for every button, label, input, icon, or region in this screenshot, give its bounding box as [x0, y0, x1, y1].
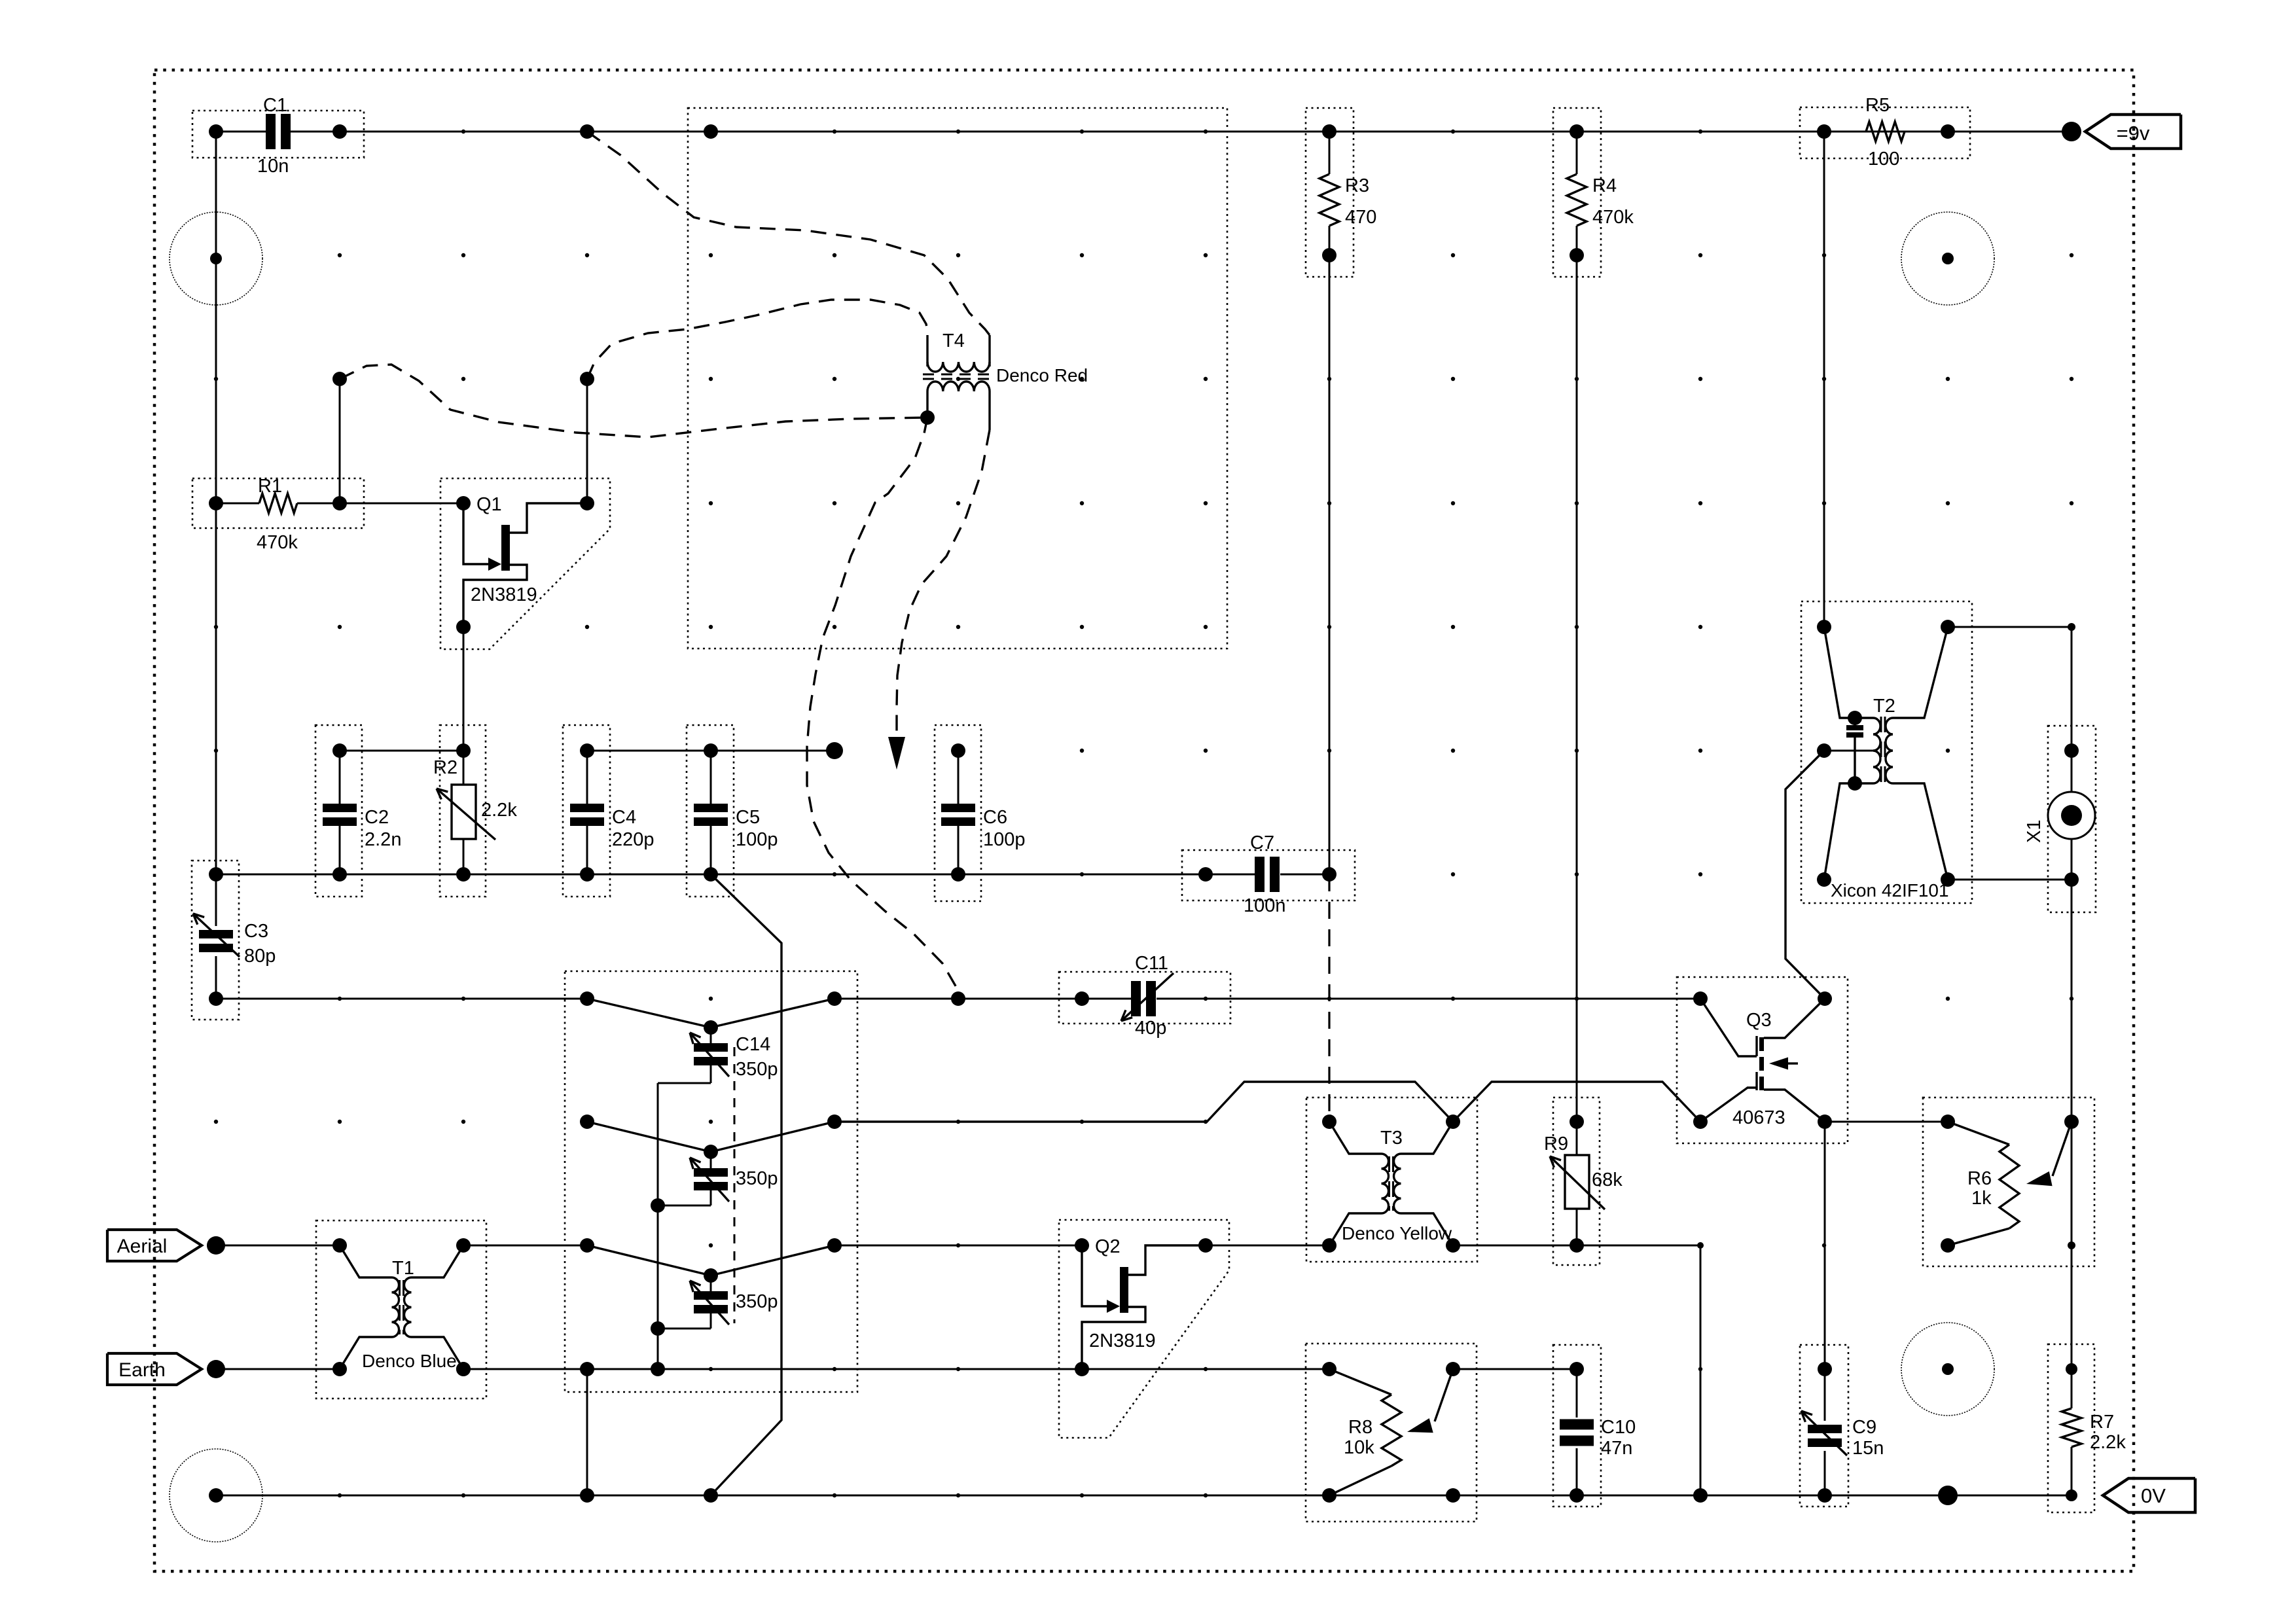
C11 value 40p [1135, 1018, 1166, 1039]
C6 box [935, 725, 981, 901]
svg-text:C10: C10 [1601, 1417, 1636, 1438]
resistor R3 [1319, 132, 1339, 262]
svg-text:350p: 350p [736, 1291, 778, 1312]
svg-text:C1: C1 [263, 95, 287, 116]
capacitor C5 [694, 751, 728, 874]
svg-text:2.2n: 2.2n [365, 829, 401, 850]
C1 box [192, 111, 364, 158]
T1 reference Denco Blue [362, 1351, 457, 1371]
wire screened lead B (Q1 drain to T4) [587, 300, 927, 379]
jack X1 [2048, 627, 2095, 887]
transistor Q1 [456, 496, 594, 634]
Q2 box [1059, 1220, 1229, 1438]
C5 label [736, 807, 760, 828]
svg-text:C4: C4 [612, 807, 636, 828]
svg-text:350p: 350p [736, 1059, 778, 1080]
T3 label [1380, 1128, 1403, 1149]
node 0V big junction [1938, 1486, 1958, 1505]
node Earth terminal [207, 1360, 225, 1378]
svg-text:=9v: =9v [2117, 122, 2150, 145]
wire screened lead A (rail to T4) [587, 132, 990, 335]
transistor Q2 [1075, 1238, 1213, 1376]
T2 label [1873, 696, 1895, 717]
R9 label [1544, 1133, 1568, 1154]
T2 reference Xicon 42IF101 [1831, 880, 1949, 901]
registration mark bottom-left [170, 1449, 262, 1542]
R1 value 470k [257, 532, 298, 553]
R4 label [1592, 175, 1617, 196]
T2 box [1801, 601, 1972, 903]
wire C5 ground link [704, 874, 781, 1503]
wire Q3 source to C9 [1824, 1122, 1826, 1369]
wire R3 to C7 [1329, 255, 1331, 874]
C14 box [565, 971, 857, 1392]
svg-text:68k: 68k [1592, 1169, 1623, 1190]
page border (dotted frame) [154, 70, 2134, 1571]
R5 box [1800, 107, 1970, 158]
wire R8 to C10 [1453, 1368, 1577, 1370]
R4 value 470k [1592, 207, 1634, 228]
R7 box [2048, 1344, 2094, 1512]
flag Earth [107, 1353, 202, 1385]
T3 box [1306, 1097, 1477, 1262]
capacitor C11 (variable) [1082, 973, 1206, 1021]
resistor R8 (pot) [1322, 1362, 1460, 1503]
node Aerial terminal [207, 1236, 225, 1255]
Q1 type 2N3819 [471, 584, 537, 605]
capacitor C14a (variable) [587, 991, 842, 1083]
C7 value 100n [1244, 895, 1286, 916]
capacitor C4 [570, 751, 604, 874]
wire earth drop [580, 1362, 594, 1503]
R5 label [1865, 95, 1890, 116]
C14a value 350p [736, 1059, 778, 1080]
resistor R2 [437, 751, 495, 874]
C5 box [687, 725, 734, 897]
C14 label [736, 1034, 770, 1055]
R6 label [1967, 1168, 1992, 1189]
X1 box [2048, 726, 2096, 912]
wire T2 top to rail [1823, 132, 1825, 627]
wire AVC bus [209, 867, 1213, 882]
wire X1 to R6 [2071, 880, 2073, 1122]
wire earth row [456, 1362, 1082, 1376]
C1 label [263, 95, 287, 116]
svg-text:R7: R7 [2090, 1412, 2114, 1433]
resistor R1 [209, 493, 347, 513]
C9 value 15n [1852, 1438, 1884, 1459]
T4 label [942, 330, 965, 351]
registration mark top-right [1901, 212, 1994, 305]
flag =9v [2085, 115, 2181, 149]
wire C14 common bus [651, 1083, 665, 1376]
capacitor C14b (variable) [580, 1115, 842, 1205]
wire C2-R2 top [332, 743, 471, 758]
svg-text:Aerial: Aerial [117, 1236, 168, 1257]
T2 internal capacitor [1846, 718, 1863, 783]
wire screened lead E (T4 lower right) [897, 430, 990, 737]
svg-text:X1: X1 [2024, 820, 2045, 843]
svg-text:Xicon 42IF101: Xicon 42IF101 [1831, 880, 1949, 901]
svg-text:T3: T3 [1380, 1128, 1403, 1149]
Q3 label [1746, 1010, 1772, 1031]
svg-text:C7: C7 [1250, 832, 1274, 853]
Q3 type 40673 [1732, 1107, 1785, 1128]
resistor R7 [2062, 1363, 2081, 1501]
R3 box [1306, 108, 1354, 277]
wire T2 to X1 top [1948, 623, 2075, 631]
svg-text:R2: R2 [433, 757, 457, 778]
svg-text:C5: C5 [736, 807, 760, 828]
svg-text:10n: 10n [257, 156, 289, 177]
svg-text:80p: 80p [244, 946, 276, 967]
resistor R4 [1567, 132, 1587, 262]
C2 label [365, 807, 389, 828]
registration mark bottom-right [1901, 1323, 1994, 1416]
R2 label [433, 757, 457, 778]
R9 value 68k [1592, 1169, 1623, 1190]
R8 value 10k [1344, 1437, 1374, 1458]
X1 label [2024, 820, 2045, 843]
registration mark top-left [170, 212, 262, 305]
flag 0V [2103, 1478, 2195, 1512]
C6 label [983, 807, 1007, 828]
resistor R5 [1866, 122, 1905, 141]
svg-text:C9: C9 [1852, 1417, 1876, 1438]
wire tuning row 1 [216, 991, 594, 1006]
svg-text:Q3: Q3 [1746, 1010, 1772, 1031]
R4 box [1553, 108, 1601, 277]
C7 label [1250, 832, 1274, 853]
wire drop to 0V [1693, 1242, 1708, 1503]
svg-text:R4: R4 [1592, 175, 1617, 196]
svg-text:470k: 470k [257, 532, 298, 553]
svg-text:Q1: Q1 [476, 494, 502, 515]
capacitor C14c (variable) [587, 1238, 842, 1329]
wire node B drop [580, 372, 594, 503]
svg-text:Denco Red: Denco Red [996, 365, 1088, 385]
svg-text:R5: R5 [1865, 95, 1890, 116]
svg-text:1k: 1k [1971, 1188, 1992, 1209]
R9 box [1553, 1097, 1600, 1265]
T4 arrow [888, 737, 905, 770]
R7 value 2.2k [2090, 1432, 2126, 1453]
svg-text:40673: 40673 [1732, 1107, 1785, 1128]
node 9V terminal [2062, 122, 2081, 141]
C14 gang link [734, 1047, 736, 1323]
resistor R6 (pot) [1941, 1115, 2079, 1253]
capacitor C2 [323, 751, 357, 874]
C9 box [1800, 1345, 1848, 1507]
svg-text:220p: 220p [612, 829, 655, 850]
R2 value 2.2k [481, 800, 517, 821]
wire Q2 drain to T3 [1206, 1245, 1329, 1247]
wire R6 to R7 [2068, 1122, 2075, 1369]
svg-text:C11: C11 [1135, 953, 1168, 974]
wire 0V rail [209, 1488, 2072, 1503]
R1 label [258, 476, 282, 497]
wire left column lower [215, 503, 217, 874]
transformer T4 [920, 335, 995, 430]
Q3 box [1677, 977, 1848, 1143]
svg-text:R9: R9 [1544, 1133, 1568, 1154]
wire Earth to T1 [216, 1368, 340, 1370]
capacitor C7 [1206, 857, 1336, 892]
wire 9V rail [291, 124, 2072, 139]
T1 box [316, 1221, 486, 1399]
svg-text:0V: 0V [2141, 1484, 2166, 1507]
wire T1 to C14c [463, 1238, 594, 1253]
C14c value 350p [736, 1291, 778, 1312]
Q1 label [476, 494, 502, 515]
T2 tap wire [1817, 743, 1873, 758]
T1 label [392, 1258, 414, 1279]
wire Q1 source to R2 [463, 627, 465, 751]
C11 box [1059, 972, 1230, 1024]
transformer T2 [1817, 620, 1955, 887]
transistor Q3 [1693, 991, 1832, 1129]
C5 value 100p [736, 829, 778, 850]
C4 box [563, 725, 610, 897]
wire C14b to T3 [834, 1082, 1453, 1122]
R3 value 470 [1345, 207, 1376, 228]
C9 label [1852, 1417, 1876, 1438]
C10 value 47n [1601, 1438, 1632, 1459]
C10 box [1553, 1345, 1601, 1507]
svg-text:15n: 15n [1852, 1438, 1884, 1459]
svg-text:47n: 47n [1601, 1438, 1632, 1459]
C7 box [1182, 850, 1355, 901]
R6 box [1923, 1097, 2094, 1266]
svg-text:100p: 100p [736, 829, 778, 850]
wire T2 to X1 bottom [1948, 879, 2072, 881]
C4 label [612, 807, 636, 828]
svg-text:2N3819: 2N3819 [471, 584, 537, 605]
wire C11 to Q3 gate1 [1206, 998, 1700, 1000]
R8 label [1348, 1417, 1372, 1438]
svg-text:T1: T1 [392, 1258, 414, 1279]
resistor R9 (variable) [1550, 1115, 1605, 1245]
T4 box [688, 108, 1227, 649]
transformer T3 [1322, 1115, 1460, 1253]
svg-text:T2: T2 [1873, 696, 1895, 717]
capacitor C9 (variable) [1801, 1362, 1847, 1503]
C10 label [1601, 1417, 1636, 1438]
svg-text:R3: R3 [1345, 175, 1369, 196]
svg-text:C2: C2 [365, 807, 389, 828]
R7 label [2090, 1412, 2114, 1433]
R1 box [192, 478, 364, 528]
svg-text:40p: 40p [1135, 1018, 1166, 1039]
C3 label [244, 921, 268, 942]
svg-text:2N3819: 2N3819 [1089, 1330, 1156, 1351]
wire earth row right [1082, 1368, 1329, 1370]
grid dots [214, 130, 2073, 1497]
wire left column [215, 132, 217, 503]
wire Q3 drain to T2 [1785, 751, 1825, 999]
C6 value 100p [983, 829, 1026, 850]
C3 box [192, 861, 239, 1020]
wire R3 dashed drop to T3 [1328, 874, 1330, 1122]
svg-text:R8: R8 [1348, 1417, 1372, 1438]
T4 reference Denco Red [996, 365, 1088, 385]
T3 reference Denco Yellow [1342, 1223, 1452, 1243]
wire C14c to Q2 gate [834, 1245, 1082, 1247]
transformer T1 [332, 1238, 471, 1376]
svg-text:C6: C6 [983, 807, 1007, 828]
svg-text:470: 470 [1345, 207, 1376, 228]
C2 value 2.2n [365, 829, 401, 850]
wire C4-C5 top [580, 742, 843, 759]
svg-text:Denco Yellow: Denco Yellow [1342, 1223, 1452, 1243]
svg-text:C3: C3 [244, 921, 268, 942]
svg-text:R6: R6 [1967, 1168, 1992, 1189]
C11 label [1135, 953, 1168, 974]
svg-text:10k: 10k [1344, 1437, 1374, 1458]
wire T3 to Q3 gate2 [1453, 1082, 1700, 1122]
R8 box [1306, 1344, 1477, 1522]
R2 box [440, 725, 486, 897]
Q1 box [440, 478, 610, 649]
wire screened lead C (Q1 source to T4) [340, 365, 927, 437]
svg-text:100p: 100p [983, 829, 1026, 850]
capacitor C1 [209, 114, 340, 149]
capacitor C3 (variable) [193, 874, 240, 1006]
flag Aerial [107, 1230, 202, 1261]
capacitor C10 [1560, 1362, 1594, 1503]
wire C11 row left [834, 991, 1089, 1006]
C2 box [315, 725, 362, 897]
Q2 label [1095, 1236, 1121, 1257]
svg-text:100n: 100n [1244, 895, 1286, 916]
R3 label [1345, 175, 1369, 196]
svg-text:R1: R1 [258, 476, 282, 497]
wire Aerial to T1 [216, 1245, 340, 1247]
Q2 type 2N3819 [1089, 1330, 1156, 1351]
svg-text:Q2: Q2 [1095, 1236, 1121, 1257]
wire node C drop [332, 372, 347, 503]
C4 value 220p [612, 829, 655, 850]
svg-text:T4: T4 [942, 330, 965, 351]
svg-text:Denco Blue: Denco Blue [362, 1351, 457, 1371]
C14b value 350p [736, 1168, 778, 1189]
wire screened lead D (T4 to C14 wire) [807, 418, 958, 999]
svg-text:C14: C14 [736, 1034, 770, 1055]
C3 value 80p [244, 946, 276, 967]
wire T3 bottom row [1453, 1238, 1700, 1253]
R6 value 1k [1971, 1188, 1992, 1209]
R5 value 100 [1868, 149, 1899, 169]
wire R1 to Q1 gate [340, 503, 463, 505]
svg-text:Earth: Earth [118, 1359, 166, 1381]
wire Q3 source right [1825, 1121, 1948, 1123]
svg-text:470k: 470k [1592, 207, 1634, 228]
svg-text:350p: 350p [736, 1168, 778, 1189]
C1 value 10n [257, 156, 289, 177]
wire R4 to R9 [1576, 255, 1578, 1122]
capacitor C6 [941, 743, 975, 874]
